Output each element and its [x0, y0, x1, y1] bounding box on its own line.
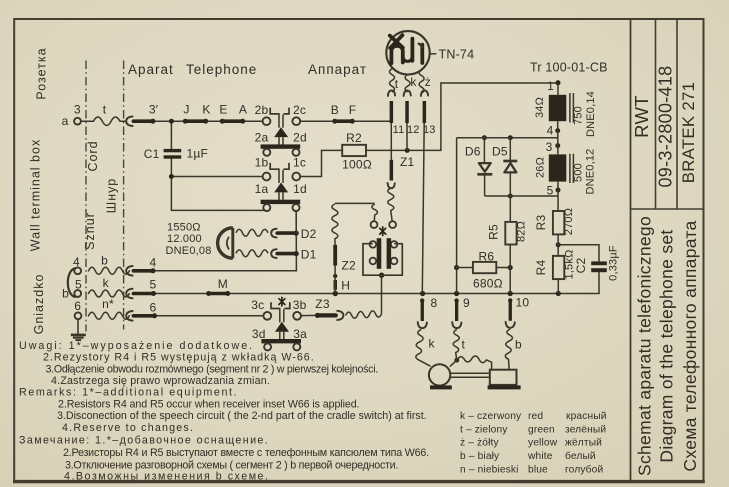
svg-text:6: 6 [74, 299, 81, 313]
svg-text:4.Reserve to changes.: 4.Reserve to changes. [62, 422, 194, 434]
svg-text:Z3: Z3 [315, 297, 330, 311]
svg-text:H: H [341, 278, 350, 292]
svg-text:1c: 1c [293, 156, 306, 170]
svg-text:red: red [528, 411, 543, 422]
svg-text:1a: 1a [255, 182, 269, 196]
svg-text:9: 9 [463, 296, 470, 310]
svg-text:1: 1 [547, 79, 554, 93]
svg-text:680Ω: 680Ω [473, 277, 503, 291]
svg-text:3′: 3′ [149, 103, 159, 117]
svg-text:RWT: RWT [631, 95, 652, 138]
svg-text:3c: 3c [251, 298, 264, 312]
svg-text:D6: D6 [465, 145, 481, 159]
svg-text:зелёный: зелёный [565, 424, 606, 435]
svg-text:26Ω: 26Ω [535, 157, 547, 178]
svg-text:DNE0,12: DNE0,12 [585, 148, 597, 194]
svg-text:t: t [103, 103, 107, 117]
svg-text:2.Resistors R4 and R5 occur wh: 2.Resistors R4 and R5 occur when receive… [58, 399, 359, 411]
svg-text:D2: D2 [301, 227, 317, 241]
svg-text:100Ω: 100Ω [342, 157, 372, 171]
svg-text:2.Резисторы R4 и R5 выступают: 2.Резисторы R4 и R5 выступают вместе с т… [63, 447, 429, 459]
svg-text:t: t [395, 77, 399, 91]
svg-text:ż: ż [425, 75, 431, 89]
svg-text:Gniazdko: Gniazdko [32, 274, 46, 335]
svg-text:B: B [331, 103, 339, 117]
svg-text:Diagram of the telephone set: Diagram of the telephone set [657, 229, 677, 462]
svg-text:4: 4 [149, 255, 156, 269]
svg-text:4.Zastrzega się prawo wprowadz: 4.Zastrzega się prawo wprowadzania zmian… [51, 375, 270, 387]
svg-text:DNE0,08: DNE0,08 [166, 245, 212, 257]
svg-text:12.000: 12.000 [167, 233, 202, 245]
svg-text:2.Rezystory R4 i R5 występują: 2.Rezystory R4 i R5 występują z wkładką … [43, 352, 315, 364]
svg-text:b – biały: b – biały [460, 451, 500, 462]
svg-text:Шнур: Шнур [105, 178, 119, 213]
svg-text:b: b [101, 253, 108, 267]
svg-text:Remarks: 1*–additional equipme: Remarks: 1*–additional equipment. [19, 387, 238, 399]
svg-text:270Ω: 270Ω [563, 208, 575, 235]
svg-text:4: 4 [73, 255, 80, 269]
svg-text:5: 5 [149, 278, 156, 292]
svg-text:3a: 3a [293, 327, 307, 341]
svg-text:11: 11 [393, 124, 405, 136]
svg-text:3: 3 [546, 140, 553, 154]
svg-text:R5: R5 [486, 224, 500, 240]
svg-text:C2: C2 [574, 258, 588, 274]
svg-text:n – niebieski: n – niebieski [460, 464, 519, 475]
svg-text:4.Возможны изменения b схеме.: 4.Возможны изменения b схеме. [64, 471, 269, 483]
svg-text:13: 13 [423, 124, 436, 136]
svg-text:1µF: 1µF [187, 147, 209, 161]
svg-text:1b: 1b [255, 156, 269, 170]
svg-text:R2: R2 [346, 131, 362, 145]
svg-text:белый: белый [565, 450, 596, 462]
svg-text:yellow: yellow [528, 438, 558, 449]
svg-text:R3: R3 [534, 215, 548, 231]
svg-text:Sznur: Sznur [83, 212, 97, 250]
svg-text:Aparat: Aparat [128, 62, 174, 77]
svg-text:5: 5 [75, 278, 82, 292]
svg-text:t: t [462, 337, 466, 351]
svg-text:Замечание: 1.*–добавочное осна: Замечание: 1.*–добавочное оснащение. [19, 435, 269, 447]
svg-text:DNE0,14: DNE0,14 [585, 91, 597, 137]
svg-text:3b: 3b [293, 298, 307, 312]
svg-text:t – zielony: t – zielony [460, 424, 508, 435]
svg-text:12: 12 [407, 124, 420, 136]
svg-text:b: b [515, 337, 522, 351]
svg-text:Z1: Z1 [400, 155, 415, 169]
svg-text:green: green [528, 424, 555, 435]
svg-text:Розетка: Розетка [35, 47, 49, 99]
svg-text:Z2: Z2 [342, 258, 357, 272]
svg-text:750: 750 [573, 106, 585, 125]
svg-text:5: 5 [547, 183, 554, 197]
svg-text:2c: 2c [293, 103, 306, 117]
svg-text:6: 6 [149, 301, 156, 315]
svg-text:8: 8 [431, 296, 438, 310]
svg-text:Cord: Cord [86, 140, 100, 171]
svg-text:2a: 2a [255, 130, 269, 144]
svg-text:J: J [183, 103, 189, 117]
svg-text:BRATEK 271: BRATEK 271 [679, 82, 698, 184]
svg-text:a: a [62, 114, 69, 128]
svg-text:n*: n* [102, 297, 114, 311]
svg-text:10: 10 [516, 296, 530, 310]
svg-text:k – czerwony: k – czerwony [460, 411, 522, 422]
svg-text:Schemat aparatu telefonicznego: Schemat aparatu telefonicznego [635, 216, 655, 476]
svg-text:3: 3 [74, 103, 81, 117]
svg-text:k: k [410, 75, 417, 89]
svg-text:2b: 2b [255, 103, 269, 117]
svg-text:Tr 100-01-CB: Tr 100-01-CB [530, 61, 608, 75]
svg-text:Схема телефонного аппарата: Схема телефонного аппарата [680, 220, 700, 471]
svg-text:Аппарат: Аппарат [308, 62, 367, 77]
svg-text:Wall terminal box: Wall terminal box [29, 139, 43, 251]
svg-text:2d: 2d [293, 130, 307, 144]
svg-text:4: 4 [547, 123, 554, 137]
svg-text:3d: 3d [252, 327, 266, 341]
svg-text:3.Odłączenie obwodu rozmównego: 3.Odłączenie obwodu rozmównego (segment … [46, 364, 378, 376]
svg-text:82Ω: 82Ω [516, 221, 528, 242]
svg-text:Telephone: Telephone [186, 62, 257, 77]
svg-text:D5: D5 [492, 145, 508, 159]
svg-text:k: k [103, 276, 110, 290]
svg-text:C1: C1 [144, 147, 160, 161]
svg-text:K: K [202, 103, 210, 117]
svg-text:Uwagi: 1*–wyposażenie dodatkow: Uwagi: 1*–wyposażenie dodatkowe. [19, 340, 254, 352]
svg-text:blue: blue [528, 464, 548, 475]
svg-text:A: A [239, 103, 247, 117]
svg-text:3.Disconection of the speech c: 3.Disconection of the speech circuit ( t… [57, 410, 427, 422]
svg-text:0,33µF: 0,33µF [608, 245, 620, 281]
svg-text:white: white [527, 451, 553, 462]
svg-text:b: b [62, 286, 69, 300]
svg-text:M: M [218, 277, 228, 291]
svg-text:1d: 1d [293, 182, 307, 196]
svg-text:R6: R6 [479, 250, 495, 264]
svg-text:1550Ω: 1550Ω [167, 222, 201, 234]
svg-text:жёлтый: жёлтый [565, 438, 602, 449]
svg-text:D1: D1 [301, 248, 317, 262]
svg-text:ż – żółty: ż – żółty [460, 438, 499, 449]
svg-text:F: F [349, 103, 357, 117]
svg-text:TN-74: TN-74 [439, 48, 475, 62]
svg-text:k: k [429, 336, 436, 350]
svg-text:R4: R4 [534, 260, 548, 276]
svg-text:34Ω: 34Ω [534, 97, 546, 118]
svg-text:500: 500 [573, 163, 585, 182]
svg-text:красный: красный [566, 411, 607, 422]
svg-text:09-3-2800-418: 09-3-2800-418 [656, 66, 676, 188]
svg-text:голубой: голубой [565, 463, 603, 475]
svg-text:E: E [219, 103, 227, 117]
